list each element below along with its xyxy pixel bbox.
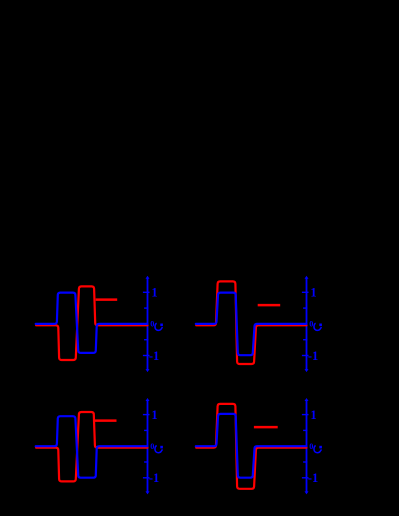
svg-text:0: 0	[150, 320, 154, 329]
svg-text:0: 0	[309, 442, 313, 451]
svg-text:1: 1	[151, 286, 157, 300]
svg-text:1: 1	[310, 286, 316, 300]
svg-text:-1: -1	[149, 349, 159, 363]
svg-text:1: 1	[151, 408, 157, 422]
svg-text:-1: -1	[308, 349, 318, 363]
svg-text:1: 1	[310, 408, 316, 422]
svg-text:0: 0	[309, 320, 313, 329]
svg-text:-1: -1	[308, 471, 318, 485]
svg-text:-1: -1	[149, 471, 159, 485]
svg-text:0: 0	[150, 442, 154, 451]
